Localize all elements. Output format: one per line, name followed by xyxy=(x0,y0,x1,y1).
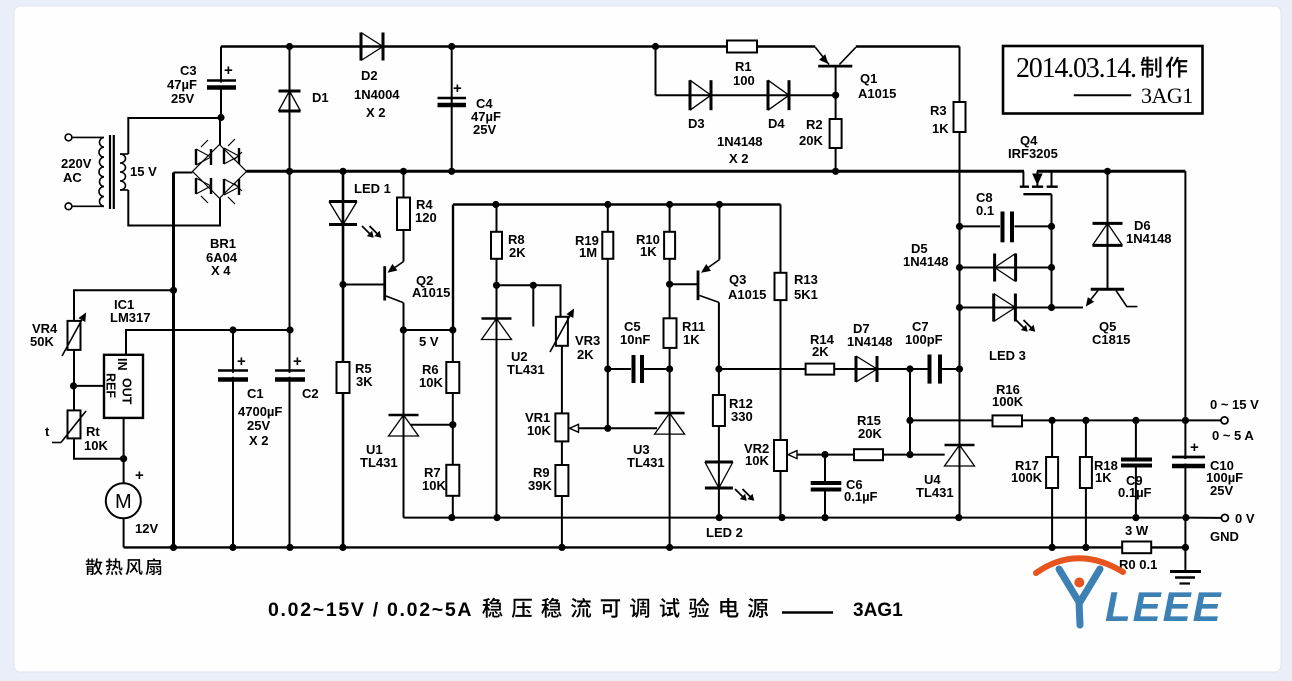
svg-text:+: + xyxy=(224,62,233,79)
svg-text:50K: 50K xyxy=(30,334,54,349)
svg-text:10K: 10K xyxy=(84,438,108,453)
svg-text:IRF3205: IRF3205 xyxy=(1008,146,1058,161)
svg-text:D3: D3 xyxy=(688,116,705,131)
svg-text:3K: 3K xyxy=(356,374,373,389)
svg-text:1K: 1K xyxy=(683,332,700,347)
svg-text:5K1: 5K1 xyxy=(794,287,818,302)
svg-text:2K: 2K xyxy=(509,245,526,260)
svg-text:12V: 12V xyxy=(135,521,158,536)
svg-text:25V: 25V xyxy=(473,122,496,137)
svg-text:+: + xyxy=(237,353,246,370)
svg-text:t: t xyxy=(45,424,50,439)
svg-text:0 ~ 15 V: 0 ~ 15 V xyxy=(1210,397,1259,412)
svg-text:2K: 2K xyxy=(577,347,594,362)
svg-text:0.1µF: 0.1µF xyxy=(844,489,878,504)
svg-text:A1015: A1015 xyxy=(858,86,896,101)
svg-text:TL431: TL431 xyxy=(916,485,954,500)
svg-text:GND: GND xyxy=(1210,529,1239,544)
svg-text:C1815: C1815 xyxy=(1092,332,1130,347)
svg-text:R2: R2 xyxy=(806,117,823,132)
svg-text:C1: C1 xyxy=(247,386,264,401)
svg-text:2014.03.14.: 2014.03.14. xyxy=(1016,53,1136,84)
svg-text:10K: 10K xyxy=(419,375,443,390)
svg-text:D2: D2 xyxy=(361,68,378,83)
svg-text:3 W: 3 W xyxy=(1125,523,1149,538)
svg-text:220V: 220V xyxy=(61,156,92,171)
svg-text:10nF: 10nF xyxy=(620,332,650,347)
svg-text:+: + xyxy=(293,353,302,370)
svg-text:LM317: LM317 xyxy=(110,310,150,325)
svg-text:1M: 1M xyxy=(579,245,597,260)
svg-text:R3: R3 xyxy=(930,103,947,118)
svg-text:0.1µF: 0.1µF xyxy=(1118,485,1152,500)
svg-text:3AG1: 3AG1 xyxy=(853,600,903,621)
svg-text:1N4004: 1N4004 xyxy=(354,87,400,102)
svg-text:LED 2: LED 2 xyxy=(706,525,743,540)
svg-text:+: + xyxy=(135,467,144,484)
svg-text:10K: 10K xyxy=(422,478,446,493)
svg-text:LED 3: LED 3 xyxy=(989,348,1026,363)
svg-text:D4: D4 xyxy=(768,116,785,131)
svg-text:BR1: BR1 xyxy=(210,236,236,251)
svg-text:1K: 1K xyxy=(932,121,949,136)
svg-text:LED 1: LED 1 xyxy=(354,181,391,196)
svg-text:LEEE: LEEE xyxy=(1105,583,1223,630)
svg-text:1N4148: 1N4148 xyxy=(903,254,949,269)
svg-text:TL431: TL431 xyxy=(627,455,665,470)
svg-text:25V: 25V xyxy=(247,418,270,433)
svg-text:R13: R13 xyxy=(794,272,818,287)
svg-text:15 V: 15 V xyxy=(130,164,157,179)
svg-text:120: 120 xyxy=(415,210,437,225)
svg-text:0.1: 0.1 xyxy=(976,203,994,218)
svg-text:R1: R1 xyxy=(735,59,752,74)
svg-text:A1015: A1015 xyxy=(728,287,766,302)
svg-text:20K: 20K xyxy=(799,133,823,148)
svg-text:D1: D1 xyxy=(312,90,329,105)
svg-text:5 V: 5 V xyxy=(419,334,439,349)
svg-text:X 2: X 2 xyxy=(249,433,269,448)
svg-text:TL431: TL431 xyxy=(507,362,545,377)
svg-text:C2: C2 xyxy=(302,386,319,401)
svg-text:4700µF: 4700µF xyxy=(238,404,282,419)
svg-text:100K: 100K xyxy=(992,394,1024,409)
svg-text:Q1: Q1 xyxy=(860,71,877,86)
svg-text:VR3: VR3 xyxy=(575,333,600,348)
svg-text:AC: AC xyxy=(63,170,82,185)
svg-text:IN: IN xyxy=(115,358,129,371)
svg-text:0 V: 0 V xyxy=(1235,511,1255,526)
svg-text:Q3: Q3 xyxy=(729,272,746,287)
svg-text:M: M xyxy=(115,491,132,513)
svg-text:X 2: X 2 xyxy=(366,105,386,120)
svg-text:Rt: Rt xyxy=(86,424,100,439)
svg-text:X 2: X 2 xyxy=(729,151,749,166)
svg-text:1N4148: 1N4148 xyxy=(847,334,893,349)
svg-text:1N4148: 1N4148 xyxy=(717,134,763,149)
svg-text:39K: 39K xyxy=(528,478,552,493)
svg-text:3AG1: 3AG1 xyxy=(1141,83,1193,108)
svg-text:REF: REF xyxy=(104,373,118,398)
svg-text:100K: 100K xyxy=(1011,470,1043,485)
svg-text:+: + xyxy=(1190,439,1199,456)
svg-text:1K: 1K xyxy=(1095,470,1112,485)
svg-text:10K: 10K xyxy=(527,423,551,438)
svg-text:1K: 1K xyxy=(640,244,657,259)
svg-text:1N4148: 1N4148 xyxy=(1126,231,1172,246)
svg-text:330: 330 xyxy=(731,409,753,424)
svg-text:2K: 2K xyxy=(812,344,829,359)
svg-text:25V: 25V xyxy=(1210,483,1233,498)
svg-text:A1015: A1015 xyxy=(412,285,450,300)
svg-text:100pF: 100pF xyxy=(905,332,943,347)
svg-text:X 4: X 4 xyxy=(211,263,231,278)
svg-text:C3: C3 xyxy=(180,63,197,78)
svg-text:10K: 10K xyxy=(745,453,769,468)
svg-text:25V: 25V xyxy=(171,91,194,106)
svg-text:0.02~15V / 0.02~5A: 0.02~15V / 0.02~5A xyxy=(268,599,473,621)
svg-text:100: 100 xyxy=(733,73,755,88)
svg-text:20K: 20K xyxy=(858,426,882,441)
svg-text:OUT: OUT xyxy=(120,378,134,405)
svg-text:0 ~ 5 A: 0 ~ 5 A xyxy=(1212,428,1254,443)
svg-text:47µF: 47µF xyxy=(167,77,197,92)
svg-text:TL431: TL431 xyxy=(360,455,398,470)
svg-text:+: + xyxy=(453,80,462,97)
